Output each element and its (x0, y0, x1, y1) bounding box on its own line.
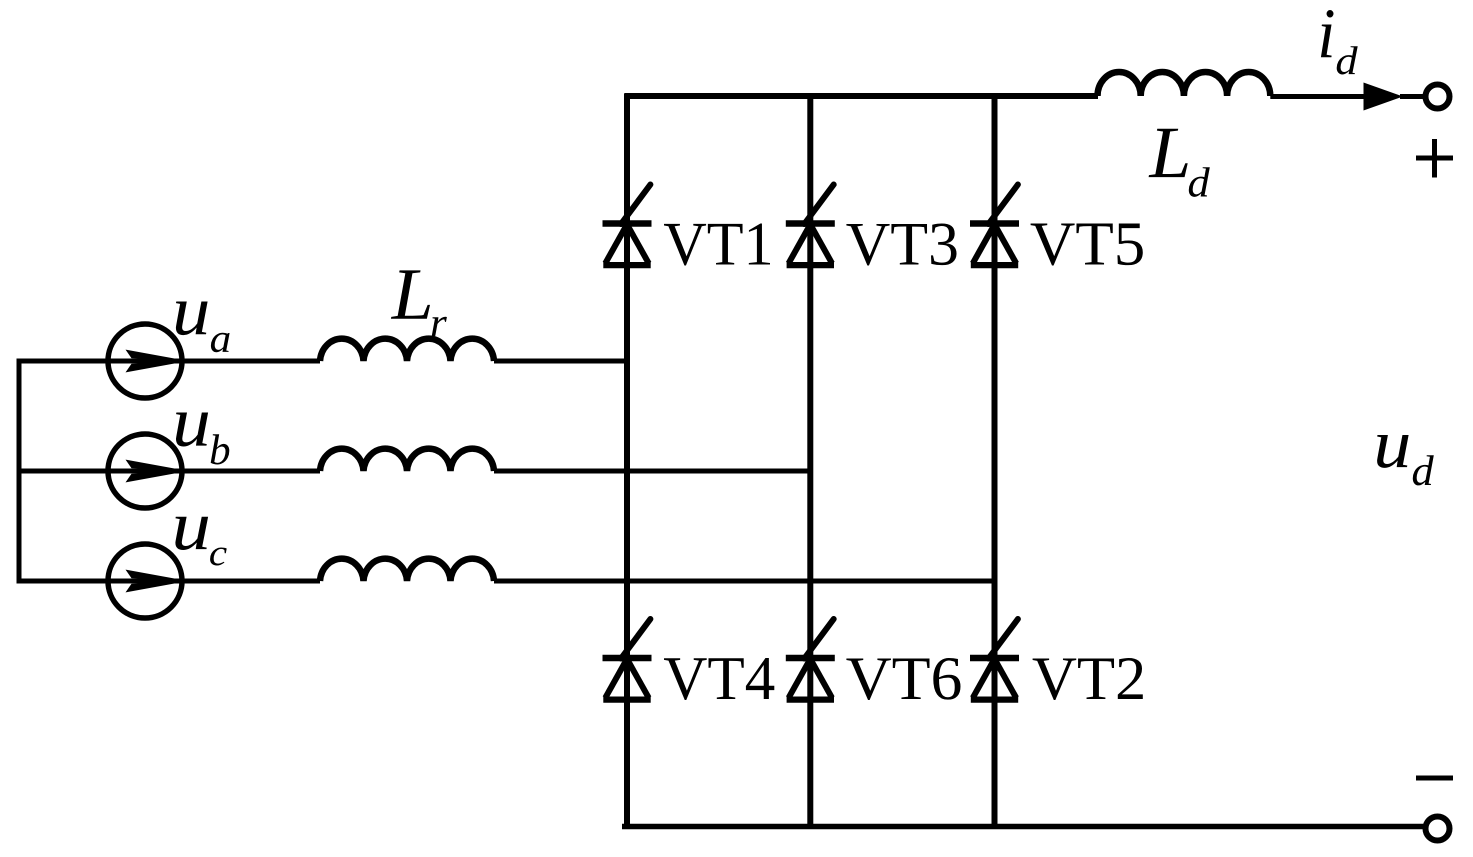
label ud (1377, 435, 1409, 468)
label VT6 (846, 658, 960, 700)
thyristor VT3 (786, 185, 835, 266)
arrow inside source uc (126, 570, 185, 581)
voltage source uc (circle) (108, 544, 182, 618)
label VT5 (1031, 224, 1143, 266)
wire: left vertical bus joining three sources (17, 359, 22, 584)
inductor phase c (320, 559, 494, 581)
terminal: plus output (1426, 85, 1450, 109)
wire: phase c horizontal from left bus through source to inductor (17, 579, 321, 584)
label plus sign (1416, 139, 1453, 178)
wire: bottom DC bus (622, 824, 1426, 830)
label VT2 (1033, 658, 1143, 700)
label VT4 (664, 658, 774, 700)
arrow inside source ua (126, 350, 185, 361)
wire: bridge leg 1 vertical (624, 94, 630, 830)
label uc (175, 517, 208, 550)
wire: arrow to plus terminal (1400, 94, 1423, 99)
label VT3 (846, 224, 956, 266)
wire: bridge leg 3 vertical (992, 94, 998, 830)
arrow: id current direction (1364, 83, 1404, 111)
wire: from Ld to arrow (1270, 94, 1367, 99)
wire: top DC bus (625, 93, 1099, 99)
thyristor VT4 (603, 619, 652, 700)
inductor phase b (320, 449, 494, 471)
wire: phase a from inductor to leg 1 (494, 359, 630, 364)
thyristor VT5 (970, 185, 1019, 266)
arrow inside source ub (126, 460, 185, 471)
voltage source ub (circle) (108, 434, 182, 508)
terminal: minus output (1426, 817, 1450, 841)
inductor Lr phase a (320, 339, 494, 361)
thyristor VT2 (970, 619, 1019, 700)
thyristor VT1 (603, 185, 652, 266)
label Ld (1149, 129, 1188, 177)
wire: phase b from inductor to leg 2 (494, 469, 813, 474)
label ub (176, 412, 208, 446)
label VT1 (664, 223, 770, 265)
wire: phase a horizontal from left bus through source to inductor (17, 359, 321, 364)
label minus sign (1416, 776, 1453, 781)
label ua (176, 302, 208, 336)
voltage source ua (circle) (108, 324, 182, 398)
inductor Ld (1098, 72, 1271, 96)
wire: bridge leg 2 vertical (807, 94, 813, 830)
label id (1321, 10, 1334, 57)
label Lr (391, 270, 430, 318)
wire: phase b horizontal from left bus through source to inductor (17, 469, 321, 474)
thyristor VT6 (786, 619, 835, 700)
wire: phase c from inductor to leg 3 (494, 579, 997, 584)
